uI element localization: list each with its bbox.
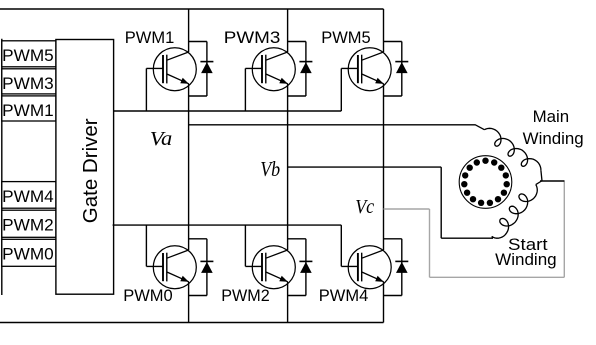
inductor L2 start winding	[492, 181, 542, 238]
svg-text:PWM4: PWM4	[319, 287, 369, 305]
input signal box PWM4	[2, 182, 56, 209]
wire leg B lower	[287, 282, 289, 323]
input signal box PWM5	[2, 41, 56, 67]
svg-text:Va: Va	[150, 129, 173, 150]
input signal box PWM2	[2, 210, 56, 237]
svg-text:PWM3: PWM3	[224, 29, 280, 47]
svg-text:PWM4: PWM4	[2, 188, 54, 206]
wire leg C lower	[383, 282, 385, 323]
svg-text:PWM3: PWM3	[2, 75, 54, 93]
diode D3 freewheel	[288, 42, 313, 97]
input signal box PWM3	[2, 69, 56, 94]
svg-text:Winding: Winding	[523, 129, 584, 148]
gate driver U1	[56, 40, 114, 295]
motor M1 (stator)	[459, 156, 512, 209]
svg-text:PWM1: PWM1	[125, 29, 175, 47]
wire leg C middle	[383, 84, 385, 250]
svg-text:PWM5: PWM5	[321, 29, 371, 47]
node Vc wire (gray)	[384, 180, 565, 277]
diode D0 freewheel	[189, 239, 214, 296]
svg-text:PWM5: PWM5	[2, 47, 54, 65]
transistor Q1 (PWM1 high side)	[146, 48, 196, 111]
input signal box PWM1	[2, 96, 56, 121]
svg-text:Main: Main	[533, 107, 570, 126]
wire winding common junction to Vc	[540, 180, 564, 182]
label Start Winding	[495, 235, 557, 269]
input signal box PWM0	[2, 239, 56, 266]
transistor Q5 (PWM5 high side)	[341, 48, 391, 111]
svg-text:PWM2: PWM2	[221, 287, 270, 305]
svg-text:Gate Driver: Gate Driver	[79, 118, 102, 223]
wire bottom gate bus	[113, 224, 342, 226]
transistor Q3 (PWM3 high side)	[245, 48, 295, 111]
inductor L1 main winding	[475, 125, 542, 181]
wire leg A lower	[188, 282, 190, 323]
diode D2 freewheel	[288, 239, 313, 296]
svg-text:Vc: Vc	[355, 197, 374, 218]
svg-text:PWM1: PWM1	[2, 102, 54, 120]
diode D5 freewheel	[384, 42, 409, 97]
wire leg A upper	[188, 9, 190, 52]
label Main Winding	[523, 107, 584, 148]
diode D1 freewheel	[189, 42, 214, 97]
diode D4 freewheel	[384, 239, 409, 296]
node Va wire	[189, 124, 476, 126]
svg-text:Winding: Winding	[495, 250, 557, 269]
wire leg B middle	[287, 84, 289, 250]
wire bottom DC bus	[0, 322, 384, 324]
node Vb wire	[288, 167, 493, 238]
wire leg C upper	[383, 9, 385, 52]
transistor Q4 (PWM4 low side)	[341, 225, 391, 289]
controller box right edge	[1, 39, 3, 295]
wire top gate bus	[114, 110, 342, 112]
wire leg B upper	[287, 9, 289, 52]
svg-text:PWM2: PWM2	[2, 216, 54, 234]
svg-text:Vb: Vb	[260, 157, 280, 181]
transistor Q2 (PWM2 low side)	[245, 225, 295, 289]
wire top DC bus	[0, 8, 384, 10]
wire leg A middle	[188, 84, 190, 250]
transistor Q0 (PWM0 low side)	[146, 225, 196, 289]
svg-text:PWM0: PWM0	[2, 246, 54, 264]
svg-text:PWM0: PWM0	[123, 287, 173, 305]
